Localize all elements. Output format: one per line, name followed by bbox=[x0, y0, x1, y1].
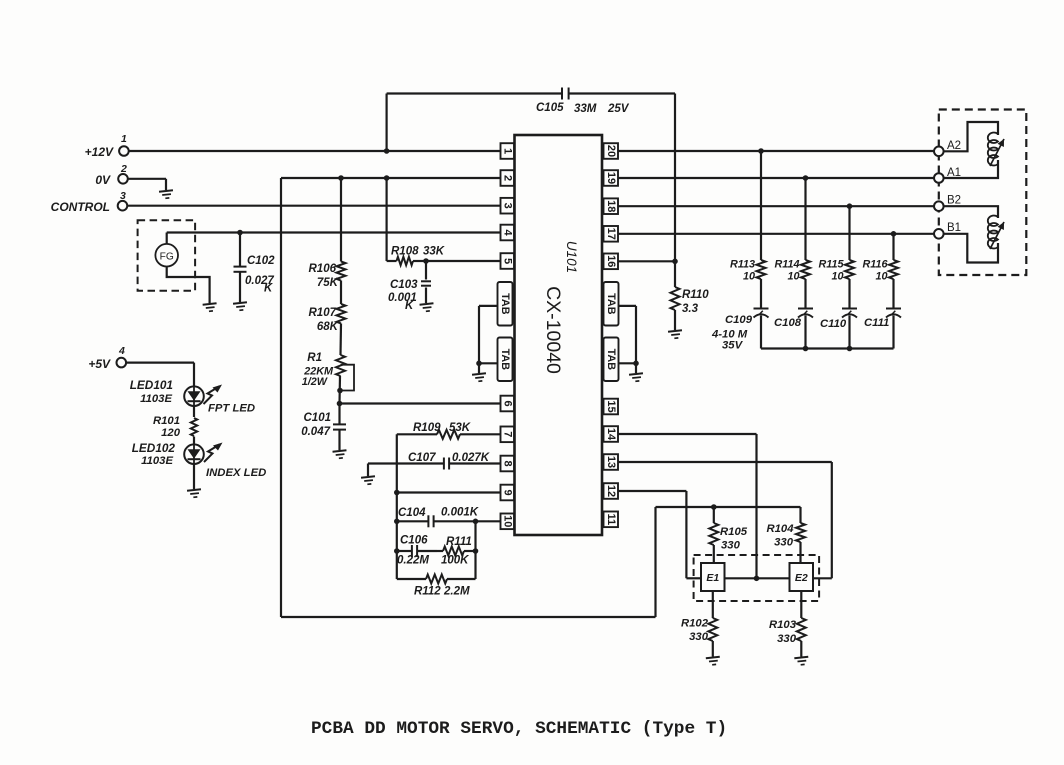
wire CONTROL row to pin 3 bbox=[127, 205, 501, 207]
svg-text:R1: R1 bbox=[307, 352, 322, 364]
svg-text:10: 10 bbox=[501, 515, 513, 527]
pin 6 bbox=[501, 396, 515, 412]
resistor R102 bbox=[708, 618, 717, 641]
svg-text:R113: R113 bbox=[730, 259, 755, 271]
ground C101 bbox=[333, 450, 348, 459]
TAB pad upper-left bbox=[498, 282, 513, 326]
svg-text:18: 18 bbox=[605, 200, 617, 212]
FG generator dashed enclosure bbox=[138, 220, 196, 290]
svg-text:0V: 0V bbox=[95, 173, 111, 187]
pin 12 bbox=[604, 483, 619, 499]
winding B arrow bbox=[990, 222, 1004, 249]
wire E1 to E2 bbox=[725, 577, 790, 579]
wire winding B to B1 bbox=[943, 234, 998, 263]
svg-text:C107: C107 bbox=[408, 452, 436, 464]
junction node R113 tap bbox=[758, 148, 764, 154]
svg-text:4: 4 bbox=[118, 345, 125, 357]
capacitor C104 bbox=[397, 520, 429, 522]
svg-text:R114: R114 bbox=[774, 259, 799, 271]
svg-text:R116: R116 bbox=[862, 259, 888, 271]
svg-text:330: 330 bbox=[689, 631, 709, 643]
svg-text:C104: C104 bbox=[398, 507, 426, 519]
wire pin 16 row bbox=[618, 260, 675, 262]
resistor R115 bbox=[845, 260, 854, 279]
svg-text:R102: R102 bbox=[681, 618, 709, 630]
svg-text:2: 2 bbox=[120, 163, 127, 175]
wire C107 to ground bbox=[367, 464, 369, 477]
wire C105 left vertical from +12V bbox=[386, 94, 388, 152]
pin 1 bbox=[501, 143, 515, 159]
resistor R108 bbox=[387, 260, 397, 262]
svg-text:1: 1 bbox=[501, 148, 513, 154]
pin 16 bbox=[604, 254, 619, 270]
wire pin 12 route bbox=[618, 490, 686, 492]
ground R110 bbox=[668, 330, 683, 339]
terminal B2 bbox=[934, 201, 944, 211]
svg-text:1103E: 1103E bbox=[140, 393, 172, 405]
wire 0V left rail down bbox=[280, 178, 282, 617]
wire R113 to C109 bbox=[760, 279, 762, 309]
junction node R1 jumper bottom bbox=[337, 388, 343, 394]
pin 18 bbox=[604, 198, 619, 214]
svg-text:0.22M: 0.22M bbox=[397, 555, 429, 567]
svg-text:INDEX LED: INDEX LED bbox=[206, 467, 266, 479]
ground LED chain bbox=[187, 489, 202, 498]
svg-text:E2: E2 bbox=[795, 572, 808, 584]
svg-text:14: 14 bbox=[605, 428, 617, 441]
wire R105 to E1 bbox=[713, 545, 715, 563]
pin 15 bbox=[604, 399, 619, 415]
pin 2 bbox=[501, 170, 515, 186]
svg-text:R106: R106 bbox=[309, 263, 337, 275]
wire row A2 (pin 20) bbox=[618, 150, 935, 152]
svg-text:35V: 35V bbox=[722, 340, 744, 352]
svg-text:33M: 33M bbox=[574, 103, 597, 115]
junction node bus C108 bbox=[803, 346, 809, 352]
wire R114 branch bbox=[804, 178, 806, 260]
pin 7 bbox=[501, 427, 515, 443]
junction node pin14 / E1-E2 bbox=[754, 576, 760, 582]
wire R106 to R107 bbox=[340, 281, 342, 305]
svg-text:13: 13 bbox=[605, 456, 617, 468]
resistor R101 bbox=[191, 418, 197, 436]
wire bottom rail up to E-network bbox=[654, 507, 656, 617]
pin 14 bbox=[604, 426, 619, 442]
svg-text:B2: B2 bbox=[947, 195, 961, 207]
terminal A1 bbox=[934, 173, 944, 183]
terminal pin 2 0V bbox=[118, 174, 128, 184]
svg-text:C106: C106 bbox=[400, 535, 428, 547]
wire pin 9 row bbox=[397, 491, 501, 493]
junction node right TAB ground bbox=[633, 361, 639, 367]
wire pin 5 row bbox=[426, 260, 501, 262]
TAB pad upper-right bbox=[604, 282, 619, 326]
resistor R111 bbox=[443, 547, 464, 556]
wire 0V terminal to local ground bbox=[127, 178, 166, 180]
svg-text:17: 17 bbox=[605, 228, 617, 240]
svg-text:R110: R110 bbox=[682, 289, 709, 301]
wire 0V row from pin 2 bbox=[281, 177, 501, 179]
wire C110 to bus bbox=[848, 316, 850, 349]
wire left TAB pads to ground bbox=[479, 305, 498, 307]
svg-text:330: 330 bbox=[774, 537, 794, 549]
ground R102 bbox=[706, 657, 721, 666]
svg-text:3: 3 bbox=[501, 203, 513, 209]
svg-text:FPT LED: FPT LED bbox=[208, 403, 255, 415]
svg-text:PCBA DD MOTOR SERVO, SCHEMATIC: PCBA DD MOTOR SERVO, SCHEMATIC (Type T) bbox=[311, 719, 727, 739]
svg-text:75K: 75K bbox=[317, 277, 339, 289]
wire R109 branch down bbox=[396, 434, 398, 579]
wire R113 branch bbox=[760, 151, 762, 260]
wire right TAB pads to ground bbox=[619, 305, 637, 307]
svg-text:10: 10 bbox=[743, 271, 755, 283]
svg-text:R104: R104 bbox=[766, 523, 794, 535]
wire 0V to R106 bbox=[340, 178, 342, 262]
motor windings dashed enclosure bbox=[939, 110, 1027, 276]
resistor R104 bbox=[796, 523, 805, 542]
sensor E1 bbox=[701, 563, 725, 591]
resistor R107 bbox=[337, 304, 346, 323]
pin 4 bbox=[501, 225, 515, 241]
wire +12V row to pin 1 bbox=[128, 150, 500, 152]
ground C107 bbox=[361, 476, 376, 485]
svg-text:16: 16 bbox=[605, 255, 617, 267]
capacitor C106 bbox=[397, 550, 412, 552]
pin 8 bbox=[501, 456, 515, 472]
LED LED101 bbox=[184, 386, 204, 406]
svg-text:3: 3 bbox=[120, 190, 126, 202]
pin 10 bbox=[501, 514, 515, 530]
wire row B1 (pin 17) bbox=[618, 233, 935, 235]
svg-text:8: 8 bbox=[501, 460, 513, 466]
ground C103 bbox=[420, 303, 435, 312]
resistor R114 bbox=[801, 260, 810, 279]
svg-text:TAB: TAB bbox=[605, 293, 617, 315]
svg-text:11: 11 bbox=[605, 513, 617, 525]
svg-text:K: K bbox=[264, 283, 273, 295]
op-amp U1 body: IC U101 CX-10040 bbox=[515, 135, 603, 535]
wire R1 to pin 6 node bbox=[338, 376, 341, 404]
svg-text:R105: R105 bbox=[720, 526, 748, 538]
pin 3 bbox=[501, 198, 515, 214]
junction node 0V / R108 branch bbox=[384, 175, 390, 181]
svg-text:10: 10 bbox=[787, 271, 799, 283]
ground FG bbox=[203, 303, 218, 312]
svg-text:25V: 25V bbox=[607, 103, 630, 115]
terminal pin 4 +5V bbox=[117, 358, 127, 368]
wire C111 to bus bbox=[892, 316, 894, 349]
svg-text:K: K bbox=[405, 300, 414, 312]
junction node R116 tap bbox=[891, 231, 897, 237]
wire R116 to C111 bbox=[892, 279, 894, 309]
wire FG top to pin 4 row bbox=[166, 233, 168, 244]
svg-text:CONTROL: CONTROL bbox=[51, 200, 110, 214]
svg-text:LED102: LED102 bbox=[132, 441, 176, 455]
pin 9 bbox=[501, 485, 515, 501]
svg-text:R111: R111 bbox=[446, 536, 472, 548]
wire winding B route bbox=[943, 206, 998, 218]
terminal B1 bbox=[934, 229, 944, 239]
svg-text:R112: R112 bbox=[414, 586, 441, 598]
svg-text:+5V: +5V bbox=[88, 357, 111, 371]
svg-text:C101: C101 bbox=[304, 412, 332, 424]
junction node R108 / C103 / pin 5 bbox=[423, 258, 429, 264]
wire R102 to ground bbox=[712, 641, 714, 657]
junction node C106 row left bbox=[394, 548, 400, 554]
svg-text:CX-10040: CX-10040 bbox=[542, 286, 564, 374]
junction node left TAB ground bbox=[476, 361, 482, 367]
svg-text:+12V: +12V bbox=[85, 145, 114, 159]
svg-text:1: 1 bbox=[121, 133, 127, 145]
TAB pad lower-right bbox=[604, 338, 619, 382]
svg-text:C110: C110 bbox=[820, 318, 847, 330]
svg-text:TAB: TAB bbox=[499, 293, 511, 315]
resistor R112 bbox=[397, 578, 426, 580]
LED101 emission arrows bbox=[204, 387, 220, 405]
capacitor C107 bbox=[368, 462, 444, 464]
svg-text:TAB: TAB bbox=[499, 349, 511, 371]
svg-text:R107: R107 bbox=[309, 307, 337, 319]
svg-text:2.2M: 2.2M bbox=[443, 586, 470, 598]
ground C102 bbox=[233, 302, 248, 311]
wire R116 branch bbox=[892, 234, 894, 260]
capacitor C109 (electrolytic) bbox=[754, 308, 769, 310]
junction node R115 tap bbox=[847, 203, 853, 209]
LED102 emission arrows bbox=[204, 445, 220, 463]
wire E1 to R102 bbox=[712, 591, 714, 618]
wire C105 top right segment bbox=[569, 92, 675, 94]
junction node FG row / C102 bbox=[237, 230, 243, 236]
resistor R110 bbox=[671, 287, 680, 310]
junction node bus C110 bbox=[847, 346, 853, 352]
ground left TABs bbox=[472, 373, 487, 382]
wire E-network top rail bbox=[656, 506, 801, 508]
capacitor C101 bbox=[338, 404, 340, 425]
wire 0V to R108 bbox=[386, 178, 388, 261]
resistor R116 bbox=[889, 260, 898, 279]
wire pin 14 route bbox=[618, 433, 757, 435]
inductor winding A bbox=[988, 132, 998, 165]
svg-text:7: 7 bbox=[501, 431, 513, 437]
wire FG bottom to ground bbox=[167, 267, 210, 304]
svg-text:C111: C111 bbox=[864, 317, 889, 329]
wire C106 branch down bbox=[474, 521, 476, 579]
svg-text:20: 20 bbox=[605, 145, 617, 157]
wire C109 to bus bbox=[760, 316, 762, 349]
svg-text:9: 9 bbox=[501, 489, 513, 495]
junction node pin 9 branch bbox=[394, 490, 400, 496]
pin 13 bbox=[604, 454, 619, 470]
svg-text:330: 330 bbox=[777, 633, 797, 645]
pin 11 bbox=[604, 512, 619, 528]
svg-text:68K: 68K bbox=[317, 321, 339, 333]
svg-text:R108: R108 bbox=[391, 246, 419, 258]
capacitor C102 bbox=[239, 233, 241, 267]
wire R115 to C110 bbox=[848, 279, 850, 309]
wire pin 13 route bbox=[618, 461, 832, 463]
wire R104 to E2 bbox=[799, 542, 801, 563]
junction node +12V / C105 tap bbox=[384, 148, 390, 154]
svg-text:C102: C102 bbox=[247, 255, 275, 267]
svg-text:12: 12 bbox=[605, 485, 617, 497]
svg-text:0.001K: 0.001K bbox=[441, 507, 479, 519]
svg-text:53K: 53K bbox=[449, 422, 471, 434]
svg-text:120: 120 bbox=[161, 427, 181, 439]
wire R107 to R1 bbox=[339, 324, 342, 356]
terminal pin 3 CONTROL bbox=[118, 201, 128, 211]
junction node 0V / R106 divider bbox=[338, 175, 344, 181]
jumper loop across R1 bbox=[340, 365, 354, 391]
winding A arrow bbox=[990, 139, 1004, 166]
resistor R106 bbox=[337, 262, 346, 281]
wire C105 top left segment bbox=[387, 92, 562, 94]
capacitor C110 (electrolytic) bbox=[842, 308, 857, 310]
LED LED102 bbox=[184, 444, 204, 464]
wire row A1 (pin 19) bbox=[618, 177, 935, 179]
pin 19 bbox=[604, 170, 619, 186]
svg-text:5: 5 bbox=[501, 258, 513, 264]
svg-text:1/2W: 1/2W bbox=[302, 376, 328, 388]
wire LED101 to R101 bbox=[193, 406, 195, 417]
svg-text:R109: R109 bbox=[413, 422, 441, 434]
wire winding A route bbox=[943, 122, 998, 151]
pin 5 bbox=[501, 253, 515, 269]
svg-text:C105: C105 bbox=[536, 102, 564, 114]
wire winding A to A1 bbox=[943, 160, 998, 178]
wire capacitor bottom bus bbox=[761, 347, 894, 349]
svg-text:R103: R103 bbox=[769, 619, 797, 631]
svg-text:LED101: LED101 bbox=[130, 378, 173, 392]
inductor winding B bbox=[988, 216, 998, 249]
ground at 0V terminal bbox=[159, 190, 174, 199]
wire R110 to ground bbox=[674, 310, 676, 330]
pin 20 bbox=[604, 143, 619, 159]
svg-text:100K: 100K bbox=[441, 555, 469, 567]
svg-text:3.3: 3.3 bbox=[682, 303, 699, 315]
resistor R113 bbox=[757, 260, 766, 279]
wire to R104 bbox=[799, 507, 801, 523]
junction node R111 right bbox=[473, 548, 479, 554]
terminal A2 bbox=[934, 147, 944, 157]
TAB pad lower-left bbox=[498, 338, 513, 382]
wire R114 to C108 bbox=[804, 279, 806, 309]
wire 0V bottom rail bbox=[281, 616, 656, 618]
resistor R109 bbox=[397, 433, 437, 435]
svg-text:19: 19 bbox=[605, 172, 617, 184]
wire pin 4 row bbox=[167, 231, 501, 233]
svg-text:0.047: 0.047 bbox=[301, 426, 330, 438]
svg-text:B1: B1 bbox=[947, 222, 961, 234]
capacitor C111 (electrolytic) bbox=[886, 308, 901, 310]
svg-text:C103: C103 bbox=[390, 279, 418, 291]
wire to R105 bbox=[713, 507, 715, 523]
wire pin 6 row bbox=[340, 402, 501, 404]
wire row B2 (pin 18) bbox=[618, 205, 935, 207]
ground right TABs bbox=[629, 373, 644, 382]
svg-text:4: 4 bbox=[501, 229, 513, 236]
junction node pin 6 / C101 bbox=[337, 401, 343, 407]
svg-text:15: 15 bbox=[605, 400, 617, 412]
svg-text:E1: E1 bbox=[706, 572, 719, 584]
svg-text:10: 10 bbox=[831, 271, 843, 283]
wire C108 to bus bbox=[804, 316, 806, 349]
junction node pin 16 / R110 bbox=[672, 259, 678, 265]
svg-text:C108: C108 bbox=[774, 317, 802, 329]
svg-text:R115: R115 bbox=[818, 259, 844, 271]
junction node C104 left bbox=[394, 519, 400, 525]
svg-text:C109: C109 bbox=[725, 314, 753, 326]
ground R103 bbox=[794, 657, 809, 666]
resistor R103 bbox=[797, 618, 806, 641]
junction node R105 top bbox=[711, 504, 717, 510]
wire +5V to LED101 bbox=[126, 362, 194, 364]
E sensors dashed enclosure bbox=[694, 555, 820, 601]
svg-text:R101: R101 bbox=[153, 415, 180, 427]
svg-text:10: 10 bbox=[875, 271, 887, 283]
wire right vertical down to pin 16 bbox=[674, 94, 676, 262]
wire R101 to LED102 bbox=[193, 437, 195, 445]
resistor R1 bbox=[336, 355, 345, 376]
svg-text:1103E: 1103E bbox=[141, 455, 173, 467]
wire LED102 to ground bbox=[193, 464, 195, 489]
FG generator symbol bbox=[155, 244, 178, 267]
wire R115 branch bbox=[848, 206, 850, 260]
svg-text:U101: U101 bbox=[564, 241, 579, 273]
terminal pin 1 +12V bbox=[119, 146, 129, 156]
junction node C104 right / C106 branch bbox=[473, 519, 479, 525]
wire R103 to ground bbox=[800, 641, 802, 657]
capacitor C108 (electrolytic) bbox=[798, 308, 813, 310]
svg-text:33K: 33K bbox=[423, 246, 445, 258]
junction node R114 tap bbox=[803, 175, 809, 181]
svg-text:330: 330 bbox=[721, 540, 741, 552]
capacitor C105 bbox=[561, 88, 563, 100]
svg-text:0.027K: 0.027K bbox=[452, 452, 490, 464]
capacitor C103 bbox=[425, 261, 427, 280]
svg-text:6: 6 bbox=[501, 400, 513, 406]
pin 17 bbox=[604, 226, 619, 242]
sensor E2 bbox=[790, 563, 814, 591]
wire to R110 bbox=[674, 261, 676, 287]
resistor R105 bbox=[709, 523, 718, 545]
svg-text:2: 2 bbox=[501, 175, 513, 181]
wire E2 to R103 bbox=[800, 591, 802, 618]
svg-text:FG: FG bbox=[160, 252, 174, 263]
svg-text:TAB: TAB bbox=[605, 349, 617, 371]
